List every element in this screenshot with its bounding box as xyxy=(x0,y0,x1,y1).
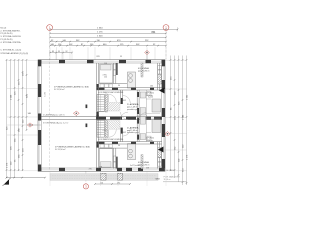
svg-text:N. 31,50 m²: N. 31,50 m² xyxy=(55,148,66,151)
svg-text:N1 (2): N1 (2) xyxy=(0,27,6,29)
svg-text:3 KOMUNIKACJA pow. 5,2 m²: 3 KOMUNIKACJA pow. 5,2 m² xyxy=(43,121,69,124)
svg-text:-0,30 WIATROLAP KOMUNIK.: -0,30 WIATROLAP KOMUNIK. xyxy=(98,91,124,94)
svg-text:258: 258 xyxy=(146,168,149,170)
svg-text:11,58 m²: 11,58 m² xyxy=(146,139,153,142)
svg-text:89: 89 xyxy=(52,51,54,53)
svg-text:1 300: 1 300 xyxy=(97,36,103,38)
svg-text:1 176: 1 176 xyxy=(97,32,103,34)
svg-text:P2 (KLIN 45): P2 (KLIN 45) xyxy=(0,33,12,35)
svg-text:3. STRONA OGRODU: 3. STRONA OGRODU xyxy=(0,35,21,38)
svg-text:4 WC: 4 WC xyxy=(103,130,108,132)
svg-text:5. STRONA KL. (2),(5): 5. STRONA KL. (2),(5) xyxy=(0,49,21,52)
svg-text:-0,30 WIATROLAP KOMUNIK.: -0,30 WIATROLAP KOMUNIK. xyxy=(98,138,124,141)
svg-text:90: 90 xyxy=(118,145,120,147)
svg-text:N. 31,50 m²: N. 31,50 m² xyxy=(54,88,65,91)
svg-text:80/2: 80/2 xyxy=(123,100,127,102)
svg-text:posadzka gres: posadzka gres xyxy=(127,132,139,134)
svg-text:STRONA LAZIENKI (2),(5),(6): STRONA LAZIENKI (2),(5),(6) xyxy=(0,52,28,55)
svg-text:1 008: 1 008 xyxy=(10,94,12,100)
svg-text:P1 (KLIN 45): P1 (KLIN 45) xyxy=(0,39,12,41)
svg-text:posadzka gres: posadzka gres xyxy=(127,109,139,111)
svg-text:35: 35 xyxy=(58,51,60,53)
svg-text:5x17,5=4x29: 5x17,5=4x29 xyxy=(130,165,140,167)
svg-text:92: 92 xyxy=(66,51,68,53)
svg-text:1 176: 1 176 xyxy=(6,162,8,168)
svg-text:258: 258 xyxy=(104,63,107,65)
svg-text:2. STRONA WIATRO.: 2. STRONA WIATRO. xyxy=(0,29,21,32)
svg-text:1 008: 1 008 xyxy=(182,114,184,120)
svg-text:55: 55 xyxy=(120,56,122,58)
svg-text:1 364: 1 364 xyxy=(97,28,103,30)
svg-text:113,6 m²: 113,6 m² xyxy=(164,178,172,181)
svg-text:1 176: 1 176 xyxy=(186,154,188,160)
svg-text:110: 110 xyxy=(104,77,107,79)
svg-text:2 LAZIENKA pow. 1,49 m²: 2 LAZIENKA pow. 1,49 m² xyxy=(43,114,65,117)
svg-text:80/2: 80/2 xyxy=(123,132,127,134)
svg-text:pow. 10,96 m²: pow. 10,96 m² xyxy=(138,69,150,72)
svg-text:770: 770 xyxy=(89,169,92,171)
svg-text:h=180: h=180 xyxy=(45,92,47,97)
svg-text:1 364: 1 364 xyxy=(186,94,188,100)
svg-text:258: 258 xyxy=(99,167,102,169)
svg-text:4. STRONA I PIETRA: 4. STRONA I PIETRA xyxy=(0,41,21,44)
svg-text:90: 90 xyxy=(118,85,120,87)
svg-text:160: 160 xyxy=(150,86,153,88)
svg-text:870: 870 xyxy=(97,56,100,58)
svg-text:292: 292 xyxy=(117,182,120,184)
svg-text:h=220: h=220 xyxy=(148,97,153,99)
svg-text:4 WC: 4 WC xyxy=(103,75,108,77)
svg-text:10 7,5x14: 10 7,5x14 xyxy=(166,170,174,172)
